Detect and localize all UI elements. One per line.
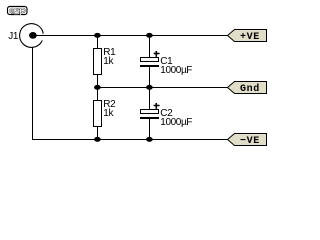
svg-text:+VE: +VE	[240, 32, 260, 43]
wire C branch upper	[149, 36, 151, 58]
wire C branch middle	[149, 67, 151, 110]
wire C branch lower	[149, 119, 151, 140]
wire bottom rail to -VE	[32, 139, 228, 141]
junction node top R	[94, 33, 101, 38]
resistor R2	[94, 101, 102, 127]
svg-text:Gnd: Gnd	[240, 83, 260, 95]
junction node bottom R	[94, 137, 101, 142]
capacitor C2	[140, 103, 160, 119]
junction node bottom C	[146, 137, 153, 142]
svg-text:1000µF: 1000µF	[160, 117, 192, 128]
net +VE	[228, 30, 267, 43]
junction node top C	[146, 33, 153, 38]
svg-text:1000µF: 1000µF	[160, 65, 192, 76]
svg-text:1k: 1k	[103, 108, 114, 119]
capacitor C1	[140, 51, 160, 67]
wire J1 drop	[32, 48, 34, 141]
net Gnd	[228, 82, 267, 95]
wire R branch middle	[97, 75, 99, 101]
svg-text:J1: J1	[8, 31, 19, 42]
connector J1	[8, 24, 43, 48]
wire R branch lower	[97, 127, 99, 140]
wire mid rail to Gnd	[98, 87, 229, 89]
ESP logo	[8, 7, 28, 16]
resistor R1	[94, 49, 102, 75]
junction node mid C	[146, 85, 153, 90]
junction node mid R	[94, 85, 101, 90]
wire top rail J1 to +VE	[33, 35, 229, 37]
wire R branch upper	[97, 36, 99, 49]
net -VE	[228, 134, 267, 147]
svg-text:1k: 1k	[103, 56, 114, 67]
svg-text:−VE: −VE	[240, 136, 260, 147]
